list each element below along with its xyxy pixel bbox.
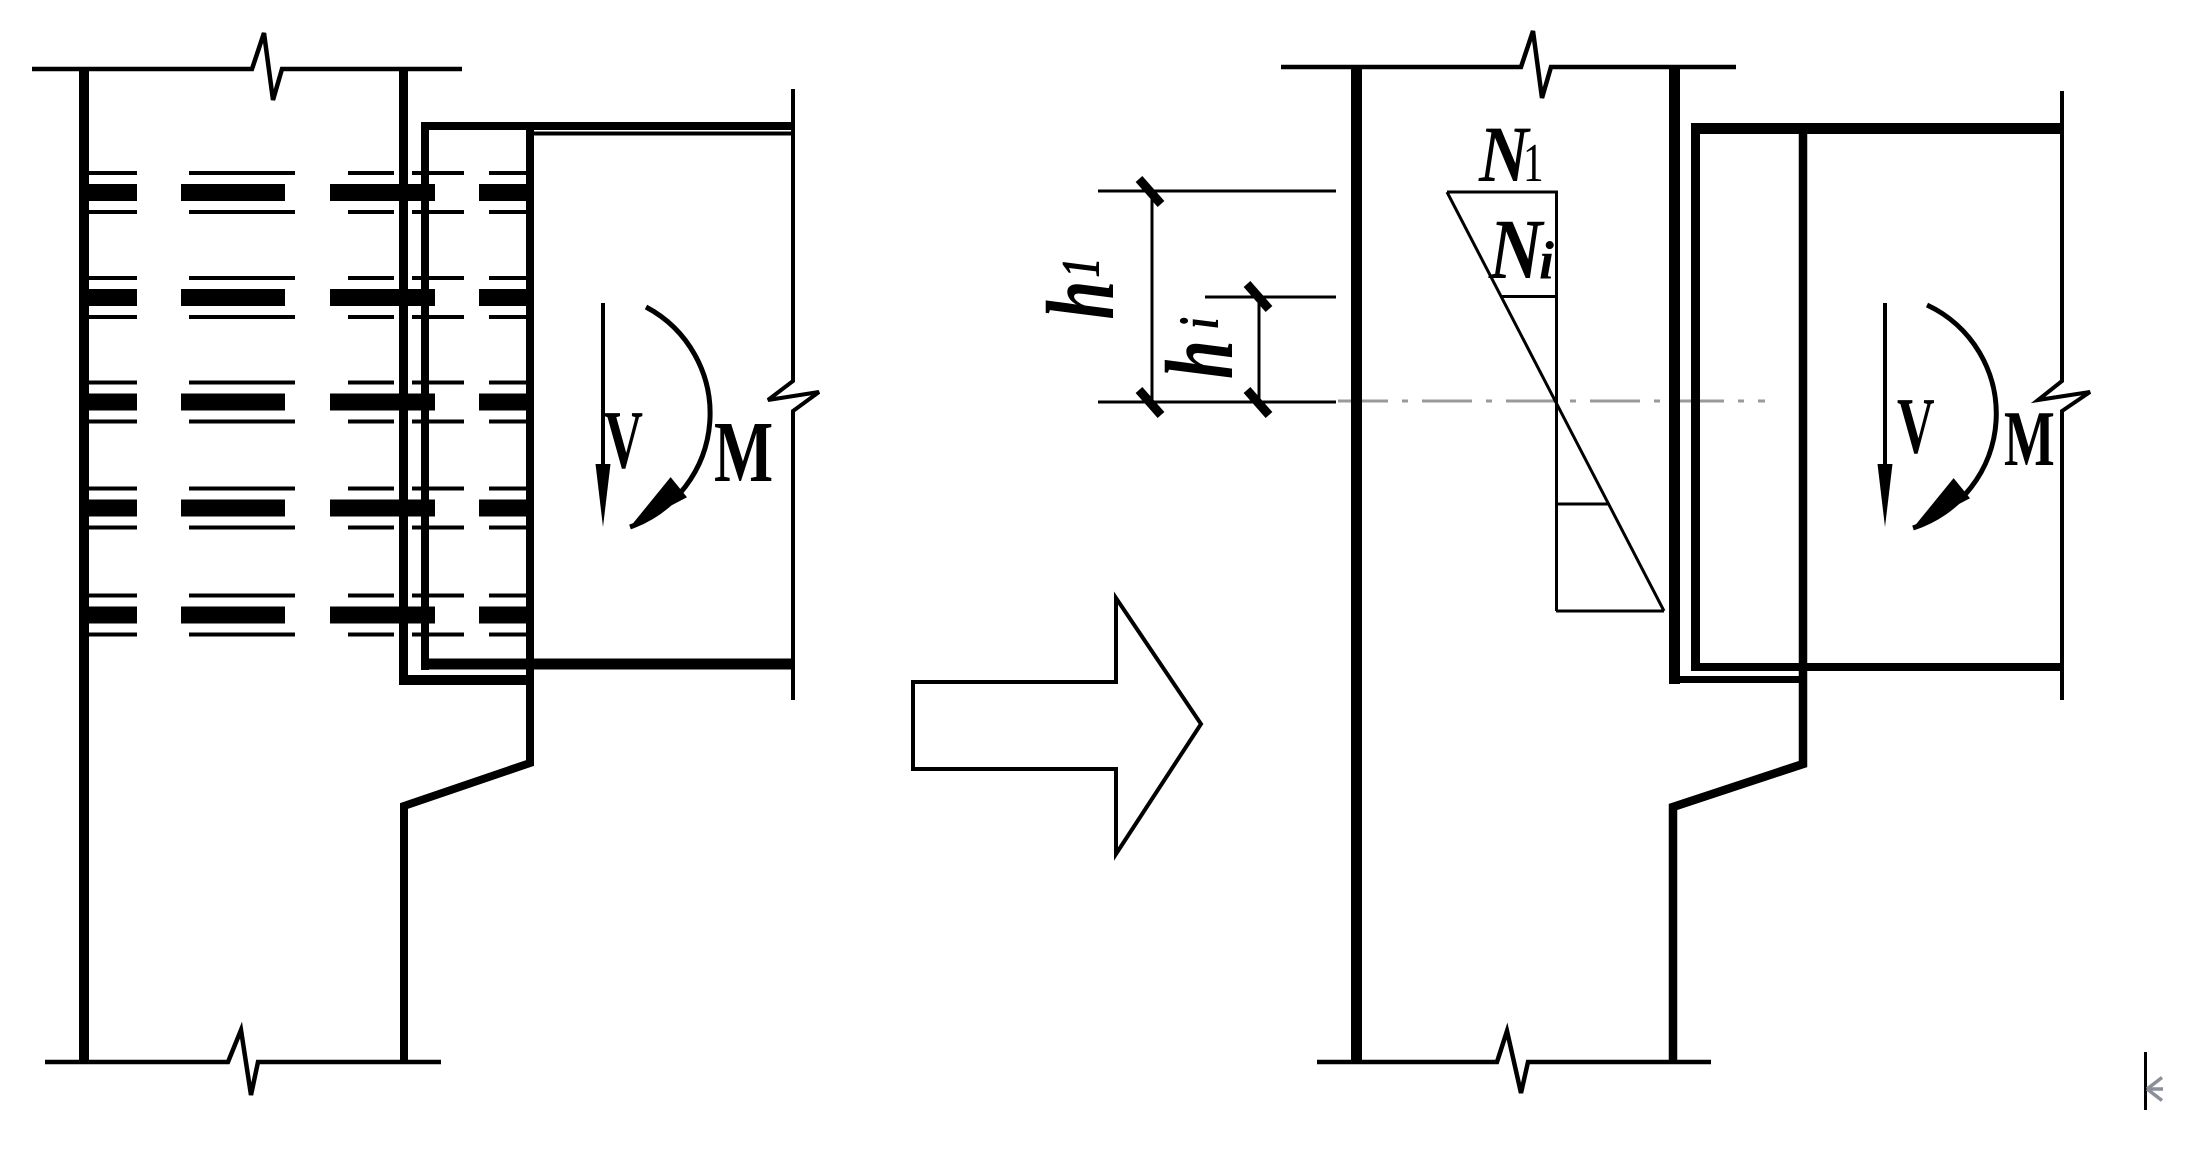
label Ni	[1488, 201, 1545, 297]
beam top flange inner line (left figure)	[534, 132, 793, 136]
force diagram diagonal	[1447, 192, 1664, 611]
force diagram vertical axis	[1555, 192, 1558, 611]
cursor tick mark bottom right	[2146, 1052, 2164, 1110]
shear force arrow V (left figure)	[596, 303, 611, 527]
shear force arrow V (right figure)	[1878, 303, 1893, 527]
column left flange (right figure)	[1351, 67, 1362, 1064]
dimension tick h1 top	[1139, 179, 1161, 204]
neutral axis centerline (gray dash-dot)	[1338, 400, 1765, 403]
beam bottom flange (left figure)	[421, 659, 793, 670]
end plate right edge + haunch chamfer + column lower right edge (right figure)	[1673, 123, 1803, 1062]
force diagram bottom edge	[1556, 610, 1664, 613]
dimension tick hi bottom	[1247, 390, 1269, 415]
column right flange (right figure)	[1669, 65, 1680, 684]
column bottom break line (right figure)	[1317, 1031, 1711, 1093]
column right flange (left figure)	[399, 67, 408, 685]
end plate bottom edge (right figure)	[1669, 676, 1806, 683]
bolt row 5 shank (left figure)	[84, 596, 534, 635]
column top break line (right figure)	[1281, 31, 1736, 98]
dimension extension line top h1 (right figure)	[1098, 190, 1336, 193]
label M (left figure)	[714, 403, 773, 500]
force diagram lower level line	[1556, 503, 1608, 506]
beam end break line (right figure)	[2038, 91, 2090, 700]
svg-text:i: i	[1539, 231, 1554, 291]
svg-text:1: 1	[1523, 132, 1544, 193]
column left flange (left figure)	[79, 67, 89, 1064]
label N1	[1478, 111, 1531, 199]
dimension line hi	[1258, 297, 1261, 402]
label V (right figure)	[1897, 383, 1935, 471]
end plate left edge (right figure)	[1691, 123, 1700, 671]
label h1 (rotated)	[1027, 258, 1134, 320]
label hi (rotated)	[1146, 317, 1253, 379]
svg-text:M: M	[2004, 396, 2055, 483]
beam top flange (right figure)	[1691, 123, 2062, 134]
end plate right edge + haunch chamfer + column lower right edge (left figure)	[404, 122, 530, 1062]
beam top flange outer line (left figure)	[421, 122, 793, 130]
beam end break line (left figure)	[768, 89, 819, 700]
bolt row 4 shank (left figure)	[84, 489, 534, 528]
end plate left edge (left figure)	[421, 122, 429, 670]
svg-text:V: V	[1897, 383, 1935, 471]
bolt row 2 shank (left figure)	[84, 278, 534, 317]
moment arc arrowhead (left figure)	[630, 477, 687, 527]
dimension tick h1 bottom	[1139, 390, 1161, 415]
column top break line (left figure)	[32, 33, 462, 100]
column bottom break line (left figure)	[45, 1030, 441, 1095]
dimension tick hi top	[1247, 284, 1269, 309]
end plate bottom edge (left figure)	[399, 675, 534, 685]
moment arc M (left figure)	[630, 307, 710, 527]
dimension extension line bottom neutral axis (right figure)	[1098, 401, 1336, 404]
big hollow arrow	[913, 598, 1201, 854]
svg-text:N: N	[1488, 201, 1545, 297]
moment arc arrowhead (right figure)	[1913, 478, 1970, 528]
dimension line h1	[1151, 191, 1154, 402]
label M (right figure)	[2004, 396, 2055, 483]
moment arc M (right figure)	[1913, 305, 1996, 528]
svg-text:M: M	[714, 403, 773, 500]
force diagram Ni level line	[1501, 295, 1556, 298]
force diagram top edge	[1447, 191, 1558, 194]
label V (left figure)	[604, 394, 643, 486]
beam bottom flange (right figure)	[1693, 663, 2062, 671]
bolt row 1 shank (left figure)	[84, 173, 534, 212]
bolt row 3 shank (left figure)	[84, 383, 534, 422]
svg-text:V: V	[604, 394, 643, 486]
dimension extension line middle hi (right figure)	[1205, 296, 1336, 299]
